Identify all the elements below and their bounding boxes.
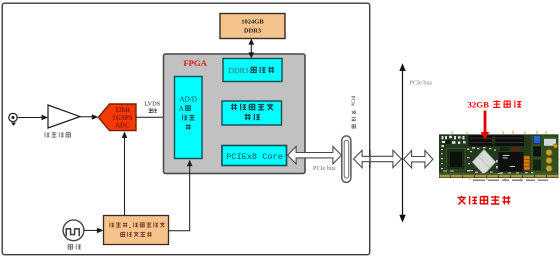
block PCIEx8 Core — [222, 146, 287, 166]
left caps cluster — [442, 136, 466, 147]
block user defined algorithm — [222, 101, 282, 125]
label 信号调理 — [45, 132, 70, 137]
svg-text:AD/D: AD/D — [179, 95, 197, 103]
memory module 1024GB DDR3 — [220, 14, 285, 39]
PCIe bus fat arrow FPGA to connector — [288, 147, 342, 164]
svg-text:ADC: ADC — [115, 123, 130, 130]
label LVDS 总线 — [144, 101, 161, 113]
annotation red arrow to memory — [481, 111, 490, 140]
svg-text:PCIEx8 Core: PCIEx8 Core — [226, 152, 283, 162]
clock source symbol — [63, 220, 84, 241]
input connector J1 — [9, 113, 17, 126]
block DDR3 controller — [223, 59, 282, 82]
svg-text:PCIe: PCIe — [350, 96, 356, 107]
block AD/DA control logic — [175, 77, 203, 159]
wire memory to DDR3 controller (double arrow) — [248, 39, 254, 59]
label PCIe连接器 (vertical) — [350, 96, 356, 129]
gold callout ticks — [452, 131, 560, 181]
fat arrow bus line to system board — [404, 151, 433, 168]
svg-text:DDR3: DDR3 — [244, 27, 262, 34]
CPU socket — [447, 149, 466, 171]
svg-text:PCIe bus: PCIe bus — [410, 80, 433, 87]
PCIe connector — [342, 136, 351, 183]
white board text specks — [443, 170, 502, 174]
label 系统控制卡 — [457, 196, 510, 205]
svg-text:A: A — [179, 105, 185, 113]
svg-text:32GB: 32GB — [468, 100, 490, 110]
label 时钟 — [68, 244, 81, 249]
PCIe bus vertical line — [399, 63, 405, 222]
svg-text:1GSPS: 1GSPS — [112, 115, 133, 122]
frame edge over arrow — [369, 150, 371, 168]
system controller board photo — [440, 131, 560, 181]
fat arrow connector to PCIe bus line — [354, 150, 402, 167]
svg-text:FPGA: FPGA — [184, 58, 208, 68]
wire generator to ADC clock — [122, 132, 128, 216]
bottom strip — [440, 173, 559, 175]
label 32GB主内存 — [468, 100, 522, 110]
wire ADC to FPGA (LVDS bus) — [136, 115, 174, 121]
orange component — [524, 156, 530, 170]
heatsink — [472, 150, 496, 175]
wire clock to generator — [84, 228, 103, 234]
wire generator to AD/DA logic — [169, 160, 193, 231]
wire input to amplifier — [17, 115, 48, 121]
black block — [499, 152, 524, 172]
ADC U1 12bit 1GSPS — [98, 104, 136, 131]
DIMM slots — [469, 135, 525, 146]
clock generator block — [104, 216, 169, 245]
svg-text:12bit: 12bit — [115, 107, 130, 114]
FPGA U2 outline — [164, 54, 306, 174]
gold ports — [546, 144, 558, 172]
amplifier A1 — [48, 105, 80, 128]
blue connector — [534, 136, 541, 144]
svg-text:DDR3: DDR3 — [228, 66, 248, 75]
svg-text:LVDS: LVDS — [144, 101, 161, 108]
svg-text:PCIe bus: PCIe bus — [313, 165, 336, 172]
border frame — [2, 3, 370, 255]
svg-text:1024GB: 1024GB — [241, 18, 264, 25]
tiny label row under board — [473, 180, 548, 181]
wire amplifier to ADC — [80, 114, 98, 120]
